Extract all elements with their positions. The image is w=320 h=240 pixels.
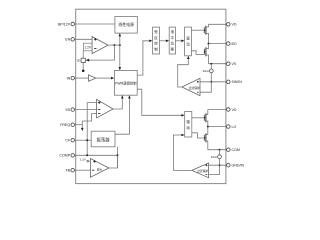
arrow into U7	[181, 40, 184, 43]
svg-text:放大: 放大	[97, 168, 103, 172]
wire FB to error amp U11	[76, 169, 91, 171]
pin COMP	[59, 154, 75, 158]
wire node A down-left to switch S1	[89, 45, 115, 60]
block U6 level shift 电平位移	[169, 27, 175, 54]
svg-text:驱: 驱	[186, 120, 190, 124]
arrow into PWM logic bottom right	[128, 95, 131, 98]
svg-text:VS: VS	[232, 62, 237, 66]
wire FREQ to ramp node	[76, 124, 83, 126]
arrow ramp down	[81, 128, 84, 131]
wire Q3 drain to pin VD bottom	[208, 109, 226, 111]
wire U7 to Q2 gate	[191, 51, 204, 55]
wire V1 to U2 inverting input	[91, 48, 93, 50]
node G junction dot	[86, 154, 88, 156]
node J junction dot	[219, 149, 221, 151]
wire node B up to linear regulator	[119, 34, 121, 46]
arrow into U12 left lower	[181, 134, 184, 137]
wire U12 to Q3 gate	[192, 117, 204, 119]
svg-text:BP/12V: BP/12V	[58, 22, 71, 26]
arrow into U6	[166, 40, 169, 43]
wire U4 output2 to low-side driver	[137, 89, 181, 115]
svg-text:COM: COM	[232, 148, 240, 152]
pin COM	[227, 148, 240, 152]
wire U7 to Q1 gate	[191, 29, 204, 31]
wire U10 output to PWM logic bottom	[115, 98, 129, 134]
arrow into U7 bottom	[187, 56, 190, 59]
wire ramp vertical	[81, 121, 83, 128]
op-amp U2 EN comparator	[92, 37, 108, 54]
arrow into low-side driver	[181, 114, 184, 117]
op-amp U9 PWM comparator	[97, 99, 114, 118]
wire IN to buffer U3	[76, 77, 89, 79]
transistor Q1	[204, 24, 209, 43]
IC outline border	[76, 9, 226, 183]
pin FB	[66, 168, 76, 172]
pin GND/IN	[227, 163, 245, 167]
wire U9 input3 from ramp	[82, 114, 96, 121]
arrow into PWM logic bottom left	[121, 95, 124, 98]
svg-text:线性电源: 线性电源	[118, 22, 134, 27]
block U10 oscillator 振荡器	[91, 131, 115, 147]
pin LO	[227, 125, 237, 129]
svg-text:控: 控	[154, 41, 158, 46]
wire U2 output node	[108, 44, 120, 46]
arrow into dead-time block	[149, 40, 152, 43]
svg-text:1.2V: 1.2V	[80, 157, 86, 161]
svg-text:VD: VD	[232, 23, 237, 27]
reference V1 1.2V box	[84, 43, 92, 51]
op-amp U13 overcurrent comparator 过流保护	[192, 163, 209, 178]
pin BP/12V	[58, 22, 76, 26]
svg-text:过流保护: 过流保护	[189, 86, 200, 90]
transistor Q2	[204, 47, 209, 63]
svg-text:振荡器: 振荡器	[97, 136, 111, 143]
svg-text:BO: BO	[232, 42, 237, 46]
svg-text:EN: EN	[65, 38, 70, 42]
svg-text:驱: 驱	[186, 37, 190, 41]
svg-text:过流保护: 过流保护	[197, 169, 208, 173]
current source I1	[209, 69, 213, 73]
node F junction dot	[86, 139, 88, 141]
wire node C down to Q2 drain	[208, 44, 210, 49]
svg-text:FREQ: FREQ	[60, 123, 70, 127]
block U12 low-side driver 驱动	[185, 112, 192, 138]
wire SS to op-amp U9	[76, 109, 97, 111]
svg-text:SS: SS	[65, 108, 70, 112]
wire U9 input1 from COMP node	[87, 103, 96, 156]
node I junction dot	[207, 126, 209, 128]
pin BO	[227, 42, 237, 46]
wire U6 to U7	[176, 40, 182, 42]
arrow into PWM logic left	[111, 77, 114, 80]
wire COMP to error amp output node	[76, 154, 118, 156]
node B junction dot	[119, 44, 121, 46]
wire U5 to U6	[160, 40, 167, 42]
wire Q2 source to pin VS	[209, 63, 227, 65]
pin IN	[67, 76, 76, 80]
wire U12 to Q4 gate	[192, 133, 204, 138]
arrow into switch S1	[86, 59, 90, 62]
pin SW/IN top	[227, 80, 243, 84]
node K junction dot	[219, 164, 221, 166]
switch S1 small square	[81, 58, 85, 62]
wire CF to oscillator	[76, 139, 91, 141]
wire Q3 source to pin LO	[208, 126, 226, 128]
svg-text:VD: VD	[232, 108, 237, 112]
wire S1 down to terminal dot	[82, 62, 84, 70]
pin VD top	[227, 23, 237, 27]
svg-text:平: 平	[171, 36, 175, 40]
pin EN	[65, 38, 76, 42]
svg-text:区: 区	[154, 36, 158, 40]
wire U3 to PWM logic	[96, 77, 112, 79]
svg-text:制: 制	[154, 46, 158, 51]
node H junction dot	[117, 154, 119, 156]
wire U13 output to U12 left input	[173, 135, 191, 170]
wire U13 noninverting input to pin GND/IN	[209, 164, 226, 166]
node D junction dot	[210, 63, 212, 65]
svg-text:SW/IN: SW/IN	[232, 80, 243, 84]
pin VD bottom	[227, 108, 237, 112]
node A junction dot	[113, 44, 115, 46]
op-amp U8 overcurrent comparator 过流保护	[182, 78, 200, 95]
node E junction dot	[210, 81, 212, 83]
wire U8 noninverting input to pin SW/IN	[200, 81, 226, 83]
reference V2 1.2V bubble	[80, 157, 90, 162]
svg-text:40uA: 40uA	[211, 155, 217, 159]
block U4 PWM logic control PWM逻辑控制	[114, 70, 137, 95]
svg-text:IN: IN	[67, 77, 71, 81]
svg-text:动: 动	[186, 41, 190, 46]
buffer U3	[89, 75, 96, 81]
node C junction dot	[208, 43, 210, 45]
wire node D to current source I1	[210, 64, 212, 69]
svg-text:LO: LO	[232, 125, 237, 129]
svg-text:FB: FB	[66, 169, 71, 173]
wire node I down to Q4 drain	[207, 127, 209, 135]
wire U11 output to node H	[109, 155, 118, 168]
arrow into PWM logic top	[119, 67, 122, 70]
pin CF	[65, 138, 75, 142]
svg-text:1.2V: 1.2V	[84, 46, 91, 50]
arrow into linear regulator bottom	[119, 33, 122, 36]
wire Q4 source to pin COM	[208, 149, 226, 151]
wire V1 down to switch S1	[82, 51, 84, 58]
svg-text:动: 动	[186, 125, 190, 130]
terminal dot below S1	[82, 70, 85, 73]
pin SS	[65, 108, 75, 112]
wire I2 down to comparator U13 inverting input	[209, 159, 220, 175]
wire EN to comparator U2	[76, 38, 92, 40]
pin VS	[227, 62, 237, 66]
wire node B down to PWM logic top	[119, 45, 121, 70]
svg-text:死: 死	[154, 29, 158, 34]
wire U9 output up to PWM logic bottom	[113, 98, 122, 109]
transistor Q4	[204, 133, 208, 149]
svg-text:40uA: 40uA	[203, 69, 209, 73]
wire Q1 drain to pin VD	[209, 23, 227, 25]
current source I2	[218, 155, 222, 159]
wire U4 output1 to dead-time block	[137, 41, 149, 75]
svg-text:COMP: COMP	[59, 154, 70, 158]
transistor Q3	[204, 110, 208, 127]
block U1 linear regulator 线性电源	[115, 17, 137, 34]
svg-text:电: 电	[171, 29, 175, 34]
svg-text:SD: SD	[77, 59, 81, 62]
svg-text:GND/IN: GND/IN	[232, 164, 245, 168]
wire node J to current source I2	[219, 150, 221, 155]
block U5 dead-time 死区控制	[153, 27, 160, 54]
block U7 high-side driver 驱动	[185, 27, 192, 56]
pin FREQ	[60, 123, 76, 127]
wire BP to linear regulator	[76, 23, 115, 25]
svg-text:移: 移	[171, 46, 175, 51]
svg-text:CF: CF	[65, 139, 71, 143]
op-amp U11 error amplifier 放大	[90, 159, 108, 178]
svg-text:位: 位	[171, 41, 175, 46]
wire I1 down to comparator U8 inverting input	[200, 73, 211, 92]
wire Q1 source to pin BO	[209, 43, 227, 45]
wire U10 bottom to COMP node	[117, 147, 119, 168]
svg-text:PWM逻辑控制: PWM逻辑控制	[115, 80, 137, 85]
wire U8 output to U7 bottom	[178, 59, 189, 87]
